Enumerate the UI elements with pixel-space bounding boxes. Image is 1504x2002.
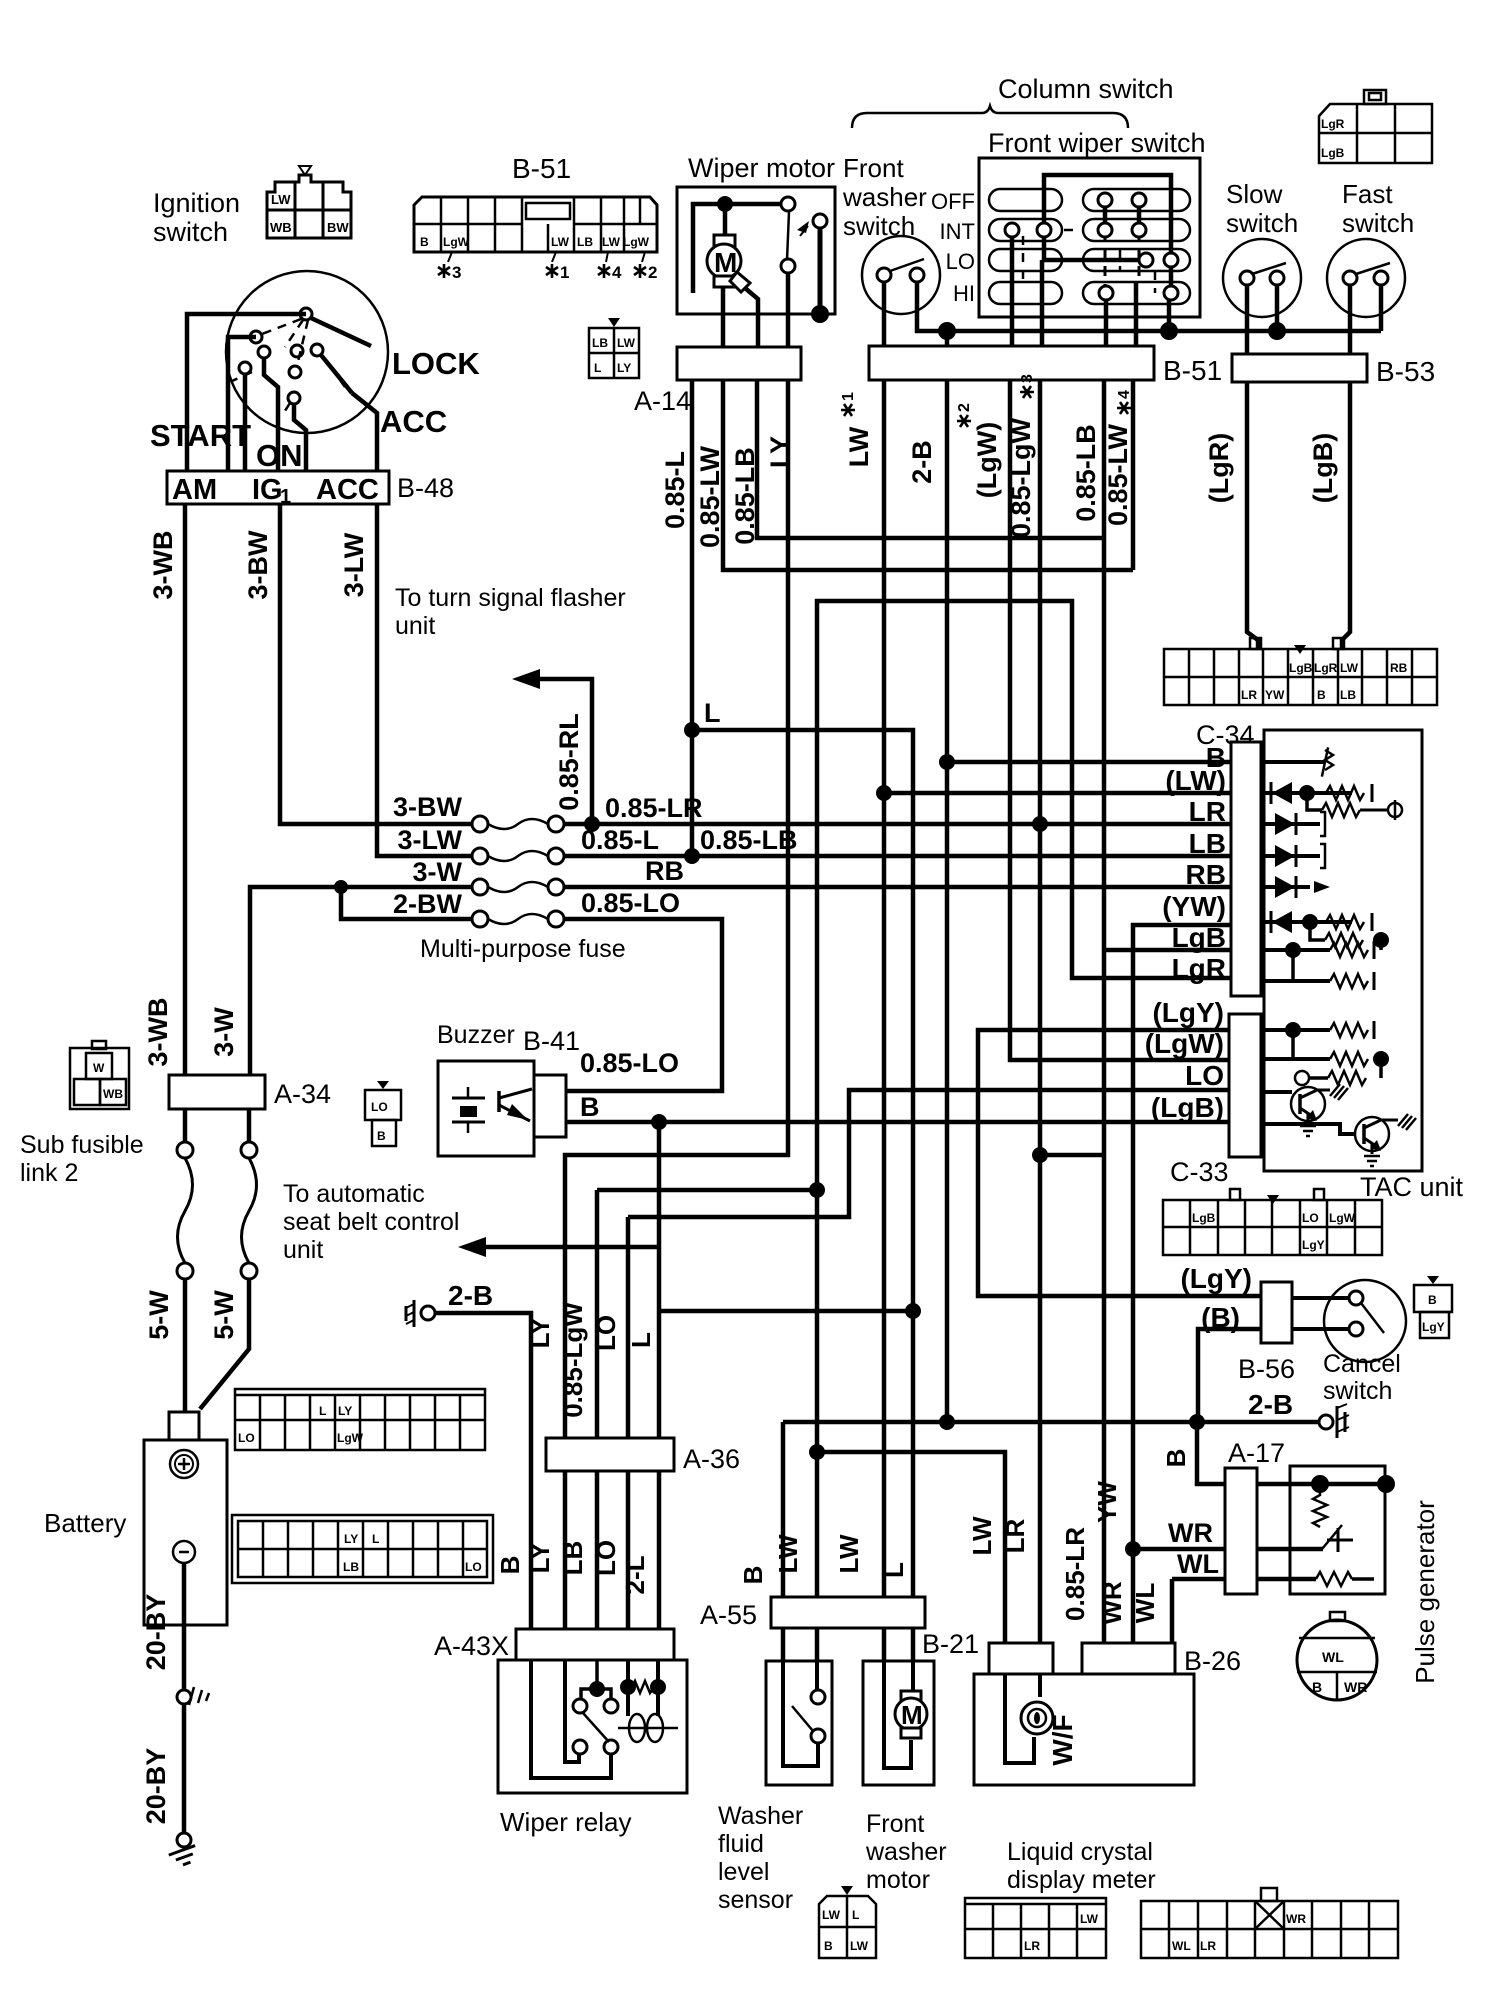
washer switch arm bbox=[890, 259, 924, 271]
svg-text:M: M bbox=[901, 1700, 923, 1730]
svg-text:2-BW: 2-BW bbox=[393, 889, 463, 919]
motor lower wire bbox=[721, 287, 726, 347]
wire B-56 B drop bbox=[1198, 1329, 1261, 1422]
contact AM2 bbox=[250, 331, 262, 343]
wire 0.85-LW below A-14 bbox=[723, 380, 1133, 570]
wire START contact to B-48 bbox=[243, 374, 248, 471]
svg-text:(B): (B) bbox=[1201, 1302, 1240, 1333]
svg-text:motor: motor bbox=[866, 1866, 930, 1894]
svg-text:LR: LR bbox=[1241, 688, 1257, 702]
wire 2-L vertical bbox=[657, 1122, 662, 1629]
contact ON bbox=[289, 366, 301, 378]
wire B row to C-34 bbox=[947, 760, 1231, 765]
connector grid mid-left bbox=[235, 1389, 485, 1450]
wire 0.85-LR row to C-34 bbox=[564, 822, 1231, 827]
svg-text:2-L: 2-L bbox=[620, 1555, 650, 1594]
svg-text:Wiper motor: Wiper motor bbox=[688, 153, 835, 183]
fuse row2 bbox=[472, 848, 488, 864]
svg-text:LO: LO bbox=[1302, 1211, 1319, 1225]
svg-text:0.85-L: 0.85-L bbox=[581, 825, 659, 855]
svg-text:Front: Front bbox=[866, 1810, 924, 1838]
svg-text:LgB: LgB bbox=[1289, 661, 1313, 675]
fuse row4 bbox=[472, 911, 488, 927]
svg-text:0.85-RL: 0.85-RL bbox=[554, 713, 584, 811]
svg-text:LO: LO bbox=[591, 1540, 621, 1576]
svg-text:unit: unit bbox=[283, 1236, 323, 1264]
svg-text:B: B bbox=[580, 1092, 600, 1122]
svg-text:3-LW: 3-LW bbox=[398, 825, 463, 855]
svg-text:LgW: LgW bbox=[443, 235, 470, 249]
park right wire bbox=[818, 228, 823, 314]
svg-text:(LgB): (LgB) bbox=[1308, 433, 1338, 503]
svg-text:2-B: 2-B bbox=[1248, 1389, 1293, 1420]
svg-text:unit: unit bbox=[395, 612, 435, 640]
svg-text:switch: switch bbox=[1226, 208, 1298, 238]
svg-text:B: B bbox=[1428, 1293, 1437, 1307]
svg-text:LR: LR bbox=[1000, 1518, 1030, 1553]
svg-text:Front: Front bbox=[843, 153, 904, 183]
svg-text:BW: BW bbox=[327, 220, 349, 235]
svg-text:AM: AM bbox=[172, 474, 217, 506]
washer fluid sensor box bbox=[766, 1661, 832, 1785]
svg-text:LgB: LgB bbox=[1172, 922, 1226, 953]
svg-text:TAC unit: TAC unit bbox=[1360, 1172, 1464, 1202]
rotor LOCK arm bbox=[311, 318, 371, 346]
svg-text:LgW: LgW bbox=[1329, 1211, 1356, 1225]
svg-text:LW: LW bbox=[271, 192, 291, 207]
svg-text:YW: YW bbox=[1092, 1481, 1122, 1523]
wire ACC arm to B-48 bbox=[352, 393, 377, 471]
svg-text:OFF: OFF bbox=[931, 189, 975, 214]
battery post box bbox=[169, 1412, 199, 1440]
svg-text:level: level bbox=[718, 1858, 769, 1886]
svg-text:Ignition: Ignition bbox=[153, 188, 240, 218]
connector bar A-17 bbox=[1225, 1468, 1257, 1594]
wire bus drop into B-51 bbox=[945, 331, 950, 346]
svg-text:ON: ON bbox=[256, 438, 303, 473]
wire B buzzer to C-33 LgB bbox=[566, 1120, 1229, 1125]
svg-text:LY: LY bbox=[765, 436, 795, 468]
stadium contacts rows bbox=[989, 189, 1190, 304]
junction on motor top wire bbox=[717, 196, 733, 212]
svg-text:LR: LR bbox=[1189, 796, 1226, 827]
TAC row LgR resistor bbox=[1261, 979, 1330, 983]
svg-text:A-34: A-34 bbox=[274, 1079, 331, 1109]
svg-text:0.85-LO: 0.85-LO bbox=[581, 888, 680, 918]
wiper motor top wire bbox=[693, 204, 782, 293]
pin marks B-51 top bbox=[438, 264, 450, 278]
svg-text:switch: switch bbox=[1323, 1377, 1392, 1405]
motor M symbol bbox=[714, 235, 735, 247]
wire 0.85-L below A-14 bbox=[690, 380, 695, 856]
svg-text:3-WB: 3-WB bbox=[148, 531, 178, 600]
svg-text:20-BY: 20-BY bbox=[141, 1594, 171, 1671]
svg-text:0.85-LB: 0.85-LB bbox=[730, 447, 760, 545]
wire 2-B below B-51 bbox=[945, 380, 950, 1422]
svg-text:0.85-LR: 0.85-LR bbox=[605, 793, 703, 823]
battery minus terminal bbox=[173, 1541, 195, 1563]
svg-text:LY: LY bbox=[525, 1318, 555, 1349]
svg-text:LW: LW bbox=[822, 1908, 841, 1922]
buzzer box bbox=[438, 1061, 534, 1156]
svg-text:A-14: A-14 bbox=[634, 386, 691, 416]
switch wiring HI-right column bbox=[1169, 260, 1174, 293]
wire 0.85-RL with arrow bbox=[538, 679, 592, 824]
svg-text:LW: LW bbox=[844, 426, 874, 467]
svg-text:B: B bbox=[1161, 1449, 1191, 1468]
svg-text:Pulse generator: Pulse generator bbox=[1410, 1500, 1440, 1684]
pulse gen lower resistor bbox=[1257, 1577, 1316, 1582]
svg-text:0.85-LB: 0.85-LB bbox=[1071, 424, 1101, 522]
wire LgB below B-53 bbox=[1342, 382, 1350, 649]
svg-text:B-51: B-51 bbox=[512, 153, 571, 184]
svg-text:ACC: ACC bbox=[380, 404, 447, 439]
wire LgR below B-53 bbox=[1247, 382, 1258, 649]
wire washer right to ground bus bbox=[917, 282, 1381, 331]
svg-text:Washer: Washer bbox=[718, 1802, 803, 1830]
svg-text:LW: LW bbox=[773, 1534, 803, 1573]
rotor pivot contact bbox=[300, 308, 312, 320]
wire 2-BW branch to fuse4 bbox=[341, 887, 473, 919]
junction 3-W/2-BW bbox=[334, 880, 348, 894]
svg-text:L: L bbox=[626, 1332, 656, 1348]
switch wiring LgW2 drop bbox=[1040, 260, 1045, 346]
wire LW to LCD branch bbox=[817, 1452, 1005, 1643]
svg-text:0.85-LO: 0.85-LO bbox=[580, 1048, 679, 1078]
svg-text:2: 2 bbox=[648, 263, 657, 282]
svg-text:WR: WR bbox=[1097, 1581, 1127, 1625]
junction B/2-L bbox=[651, 1114, 667, 1130]
relay internal wires bbox=[531, 1660, 611, 1778]
svg-text:3-BW: 3-BW bbox=[393, 792, 463, 822]
svg-text:LgW: LgW bbox=[337, 1431, 364, 1445]
contact center pair bbox=[291, 345, 303, 357]
svg-text:fluid: fluid bbox=[718, 1830, 764, 1858]
wire LgW below B-51 bbox=[1010, 380, 1229, 1060]
svg-text:Slow: Slow bbox=[1226, 179, 1283, 209]
svg-text:2: 2 bbox=[956, 403, 973, 412]
svg-text:LgB: LgB bbox=[1192, 1211, 1216, 1225]
svg-text:A-55: A-55 bbox=[700, 1600, 757, 1630]
wire 0.85-LW below B-51 bbox=[1131, 380, 1136, 570]
svg-text:YW: YW bbox=[1265, 688, 1285, 702]
svg-text:B: B bbox=[738, 1566, 768, 1585]
connector grid C-34 top bbox=[1164, 638, 1437, 705]
svg-text:Column switch: Column switch bbox=[998, 74, 1174, 104]
svg-text:switch: switch bbox=[1342, 208, 1414, 238]
wire B into A-55 bbox=[781, 1422, 786, 1597]
wire WR into pickup bbox=[1257, 1547, 1323, 1552]
svg-text:(LgW): (LgW) bbox=[1145, 1028, 1224, 1059]
LCD meter box bbox=[974, 1674, 1194, 1785]
washer switch contacts bbox=[877, 268, 891, 282]
svg-text:B: B bbox=[495, 1556, 525, 1575]
svg-text:L: L bbox=[852, 1908, 859, 1922]
connector bar A-43X bbox=[516, 1629, 674, 1660]
wire AM from pivot to B-48 bbox=[187, 314, 306, 471]
wire 0.85-LR link bbox=[1040, 1153, 1104, 1158]
svg-text:L: L bbox=[704, 698, 721, 728]
svg-text:LB: LB bbox=[558, 1541, 588, 1576]
TAC row LW diode + resistors bbox=[1261, 791, 1352, 795]
park switch contact low bbox=[781, 259, 795, 273]
svg-text:START: START bbox=[150, 418, 251, 453]
wire fast right to bus bbox=[1379, 285, 1384, 331]
connector 2x2 bottom bbox=[819, 1896, 876, 1958]
svg-text:Front wiper switch: Front wiper switch bbox=[988, 128, 1206, 158]
svg-text:LB: LB bbox=[577, 235, 593, 249]
cancel switch circle bbox=[1324, 1280, 1406, 1362]
front washer motor box bbox=[863, 1661, 934, 1785]
svg-text:A-36: A-36 bbox=[683, 1444, 740, 1474]
svg-text:4: 4 bbox=[612, 263, 622, 282]
ground 2-B left bbox=[421, 1306, 435, 1320]
park low wire to A-14 bbox=[786, 273, 791, 347]
wiper motor box bbox=[677, 187, 835, 314]
washer motor symbol bbox=[901, 1691, 921, 1701]
svg-text:LgR: LgR bbox=[1172, 953, 1226, 984]
svg-text:WR: WR bbox=[1286, 1912, 1306, 1926]
TAC transistor Q2 bbox=[1261, 1124, 1356, 1134]
svg-text:0.85-LgW: 0.85-LgW bbox=[558, 1302, 588, 1418]
front washer switch circle bbox=[862, 236, 940, 314]
fast switch circle bbox=[1327, 239, 1405, 317]
svg-text:(LW): (LW) bbox=[1165, 765, 1226, 796]
svg-text:W/F: W/F bbox=[1047, 1714, 1078, 1765]
svg-text:display meter: display meter bbox=[1007, 1866, 1156, 1894]
svg-text:W: W bbox=[93, 1061, 105, 1075]
relay contacts bbox=[573, 1699, 587, 1713]
svg-text:LgR: LgR bbox=[1321, 117, 1345, 131]
pulse gen top wire bbox=[1257, 1482, 1388, 1487]
contact ACC low bbox=[288, 392, 300, 404]
pulse gen resistor vertical bbox=[1313, 1484, 1327, 1527]
svg-text:B-41: B-41 bbox=[523, 1026, 580, 1056]
switch wiring LB column bbox=[1103, 200, 1108, 230]
TAC transistor Q1 bbox=[1261, 1090, 1292, 1094]
wire LY below A-14 bbox=[565, 380, 788, 1629]
connector bar A-36 bbox=[546, 1438, 674, 1471]
svg-text:(LgW): (LgW) bbox=[972, 422, 1002, 498]
svg-text:M: M bbox=[714, 247, 737, 278]
connector bar C-33 bbox=[1229, 1014, 1261, 1157]
svg-text:0.85-LR: 0.85-LR bbox=[1060, 1527, 1090, 1621]
connector B-48 bbox=[167, 471, 389, 504]
svg-text:LgY: LgY bbox=[1422, 1320, 1445, 1334]
wire (LgY) row to B-56 bbox=[978, 1030, 1261, 1296]
junction YW/WR bbox=[1125, 1541, 1141, 1557]
battery plus terminal bbox=[170, 1450, 198, 1478]
svg-text:seat belt control: seat belt control bbox=[283, 1208, 460, 1236]
slow switch circle bbox=[1223, 239, 1301, 317]
junction on box edge bbox=[811, 305, 829, 323]
LCD gauge bbox=[1005, 1674, 1034, 1763]
svg-text:(LgY): (LgY) bbox=[1180, 1263, 1252, 1294]
wire 3-LW from B-48 to fuse2 bbox=[377, 504, 473, 856]
svg-text:L: L bbox=[319, 1404, 326, 1418]
svg-text:LO: LO bbox=[238, 1431, 255, 1445]
svg-text:3-W: 3-W bbox=[209, 1007, 239, 1057]
wire 20-BY bbox=[182, 1563, 187, 1690]
svg-text:B-48: B-48 bbox=[397, 473, 454, 503]
wire 2-B to A-43X bbox=[435, 1313, 531, 1629]
seat belt arrow wire bbox=[484, 1245, 659, 1250]
svg-text:Buzzer: Buzzer bbox=[437, 1021, 515, 1049]
wire LO jog bbox=[628, 1090, 1229, 1217]
junction bus/wiper switch bbox=[1160, 322, 1178, 340]
svg-text:ACC: ACC bbox=[316, 474, 379, 506]
svg-text:4: 4 bbox=[1116, 390, 1133, 399]
svg-text:5-W: 5-W bbox=[209, 1290, 239, 1340]
svg-text:B: B bbox=[377, 1129, 386, 1143]
svg-text:Multi-purpose fuse: Multi-purpose fuse bbox=[420, 935, 626, 963]
svg-text:LY: LY bbox=[525, 1543, 555, 1574]
ground symbol right bbox=[1319, 1415, 1333, 1429]
svg-text:washer: washer bbox=[842, 182, 927, 212]
svg-text:LB: LB bbox=[592, 336, 608, 350]
svg-text:RB: RB bbox=[1390, 661, 1408, 675]
connector A-14 bar bbox=[677, 347, 801, 380]
wire LO vertical segment bbox=[626, 1217, 631, 1629]
svg-text:B: B bbox=[824, 1939, 833, 1953]
svg-text:3: 3 bbox=[1019, 374, 1036, 383]
svg-text:WB: WB bbox=[103, 1087, 123, 1101]
svg-text:LY: LY bbox=[338, 1404, 352, 1418]
svg-text:INT: INT bbox=[940, 219, 975, 244]
wire LgW upper path bbox=[817, 601, 1231, 1190]
svg-text:LO: LO bbox=[946, 249, 975, 274]
park switch contact top bbox=[781, 197, 795, 211]
svg-text:L: L bbox=[372, 1532, 379, 1546]
wire (YW) row bbox=[1133, 925, 1231, 1643]
svg-text:sensor: sensor bbox=[718, 1886, 793, 1914]
svg-text:(LgY): (LgY) bbox=[1152, 997, 1224, 1028]
LCD meter connector left bbox=[989, 1643, 1053, 1674]
svg-text:WB: WB bbox=[270, 220, 292, 235]
fuse row3 bbox=[472, 879, 488, 895]
svg-text:link 2: link 2 bbox=[20, 1159, 78, 1187]
svg-text:Liquid crystal: Liquid crystal bbox=[1007, 1838, 1153, 1866]
svg-text:RB: RB bbox=[645, 856, 684, 886]
svg-text:WR: WR bbox=[1344, 1679, 1367, 1695]
junction RL/LR bbox=[584, 816, 600, 832]
svg-text:LR: LR bbox=[1024, 1939, 1040, 1953]
connector bar A-55 bbox=[771, 1597, 925, 1628]
svg-text:To turn signal flasher: To turn signal flasher bbox=[395, 584, 626, 612]
svg-text:3-WB: 3-WB bbox=[143, 998, 173, 1067]
switch wiring LW column bbox=[1137, 200, 1142, 230]
svg-text:switch: switch bbox=[153, 217, 228, 247]
fusible link left bbox=[183, 1109, 188, 1143]
mid ground bbox=[177, 1690, 191, 1704]
svg-text:LW: LW bbox=[834, 1534, 864, 1573]
svg-text:washer: washer bbox=[865, 1838, 947, 1866]
TAC row LR diode bbox=[1261, 822, 1320, 826]
svg-text:LgB: LgB bbox=[1321, 146, 1345, 160]
column switch brace bbox=[852, 106, 1128, 128]
svg-text:Cancel: Cancel bbox=[1323, 1350, 1401, 1378]
svg-text:1: 1 bbox=[840, 392, 857, 401]
wire 3-WB from B-48 to A-34 bbox=[183, 504, 188, 1075]
wire 0.85-LB below A-14 bbox=[757, 380, 1104, 538]
wire ON contact to B-48 bbox=[294, 404, 306, 471]
fuse row1 bbox=[472, 816, 488, 832]
svg-text:LW: LW bbox=[617, 336, 636, 350]
svg-text:WL: WL bbox=[1172, 1939, 1191, 1953]
svg-text:LW: LW bbox=[1340, 661, 1359, 675]
svg-text:LB: LB bbox=[343, 1560, 359, 1574]
buzzer symbol bbox=[467, 1087, 470, 1098]
rotor ACC arm bbox=[321, 355, 352, 393]
svg-text:A-17: A-17 bbox=[1228, 1438, 1285, 1468]
svg-text:(LgR): (LgR) bbox=[1204, 433, 1234, 503]
svg-text:B-53: B-53 bbox=[1376, 356, 1435, 387]
svg-text:1: 1 bbox=[560, 263, 569, 282]
svg-text:B-21: B-21 bbox=[922, 1629, 979, 1659]
svg-text:LW: LW bbox=[850, 1939, 869, 1953]
pulse generator connector circle bbox=[1297, 1620, 1377, 1700]
svg-text:(LgB): (LgB) bbox=[1151, 1092, 1224, 1123]
svg-text:Fast: Fast bbox=[1342, 179, 1393, 209]
svg-text:C-33: C-33 bbox=[1170, 1157, 1229, 1187]
relay coil bbox=[629, 1714, 645, 1742]
dashed detents bbox=[1023, 230, 1155, 293]
wire LW below B-51 bbox=[882, 380, 887, 1597]
junction 0.85-L bbox=[684, 848, 700, 864]
ignition switch connector bbox=[267, 175, 351, 238]
TAC row RB diode arrow bbox=[1261, 885, 1310, 889]
svg-text:To automatic: To automatic bbox=[283, 1180, 425, 1208]
svg-text:0.85-LB: 0.85-LB bbox=[700, 825, 798, 855]
svg-text:RB: RB bbox=[1186, 859, 1226, 890]
svg-text:A-43X: A-43X bbox=[434, 1631, 509, 1661]
junction L branch bbox=[684, 722, 700, 738]
connector top right corner bbox=[1319, 90, 1432, 163]
svg-text:0.85-L: 0.85-L bbox=[660, 451, 690, 529]
connector grid lower-left bbox=[232, 1515, 493, 1583]
park contact right bbox=[813, 214, 827, 228]
svg-text:LW: LW bbox=[967, 1516, 997, 1555]
svg-text:3-BW: 3-BW bbox=[243, 530, 273, 600]
motor brush tail wire bbox=[745, 288, 758, 347]
wire LW sensor vertical bbox=[815, 1190, 820, 1597]
svg-text:WR: WR bbox=[1168, 1518, 1213, 1548]
wire 0.85-L/LB row to C-34 bbox=[564, 854, 1231, 859]
wire 3-BW from B-48 to fuse1 bbox=[280, 504, 473, 824]
connector bar B-51 bbox=[869, 346, 1154, 380]
front wiper switch box bbox=[979, 158, 1200, 317]
connector wide bottom bbox=[1141, 1888, 1398, 1958]
svg-text:LY: LY bbox=[344, 1532, 358, 1546]
svg-text:B: B bbox=[1312, 1679, 1322, 1695]
svg-text:LW: LW bbox=[551, 235, 570, 249]
wire (LW) row to C-34 bbox=[884, 791, 1231, 796]
washer motor wires bbox=[882, 1628, 887, 1661]
fusible link right bbox=[247, 1109, 252, 1143]
wire B to A-17 bbox=[1197, 1422, 1225, 1484]
TAC row LgW resistor bbox=[1261, 1057, 1330, 1061]
buzzer pin connector small bbox=[365, 1090, 401, 1146]
park switch arm bbox=[787, 212, 789, 260]
pulse generator box bbox=[1290, 1466, 1385, 1594]
wire fast left into B-53 bbox=[1348, 285, 1353, 354]
wire 0.85-LgW below B-51 bbox=[1038, 380, 1043, 1643]
svg-text:B-26: B-26 bbox=[1184, 1646, 1241, 1676]
connector LCD bottom bbox=[965, 1898, 1106, 1958]
wire LgB row bbox=[1104, 948, 1231, 953]
wire slow left into B-53 bbox=[1245, 285, 1250, 354]
svg-text:LgR: LgR bbox=[1314, 661, 1338, 675]
